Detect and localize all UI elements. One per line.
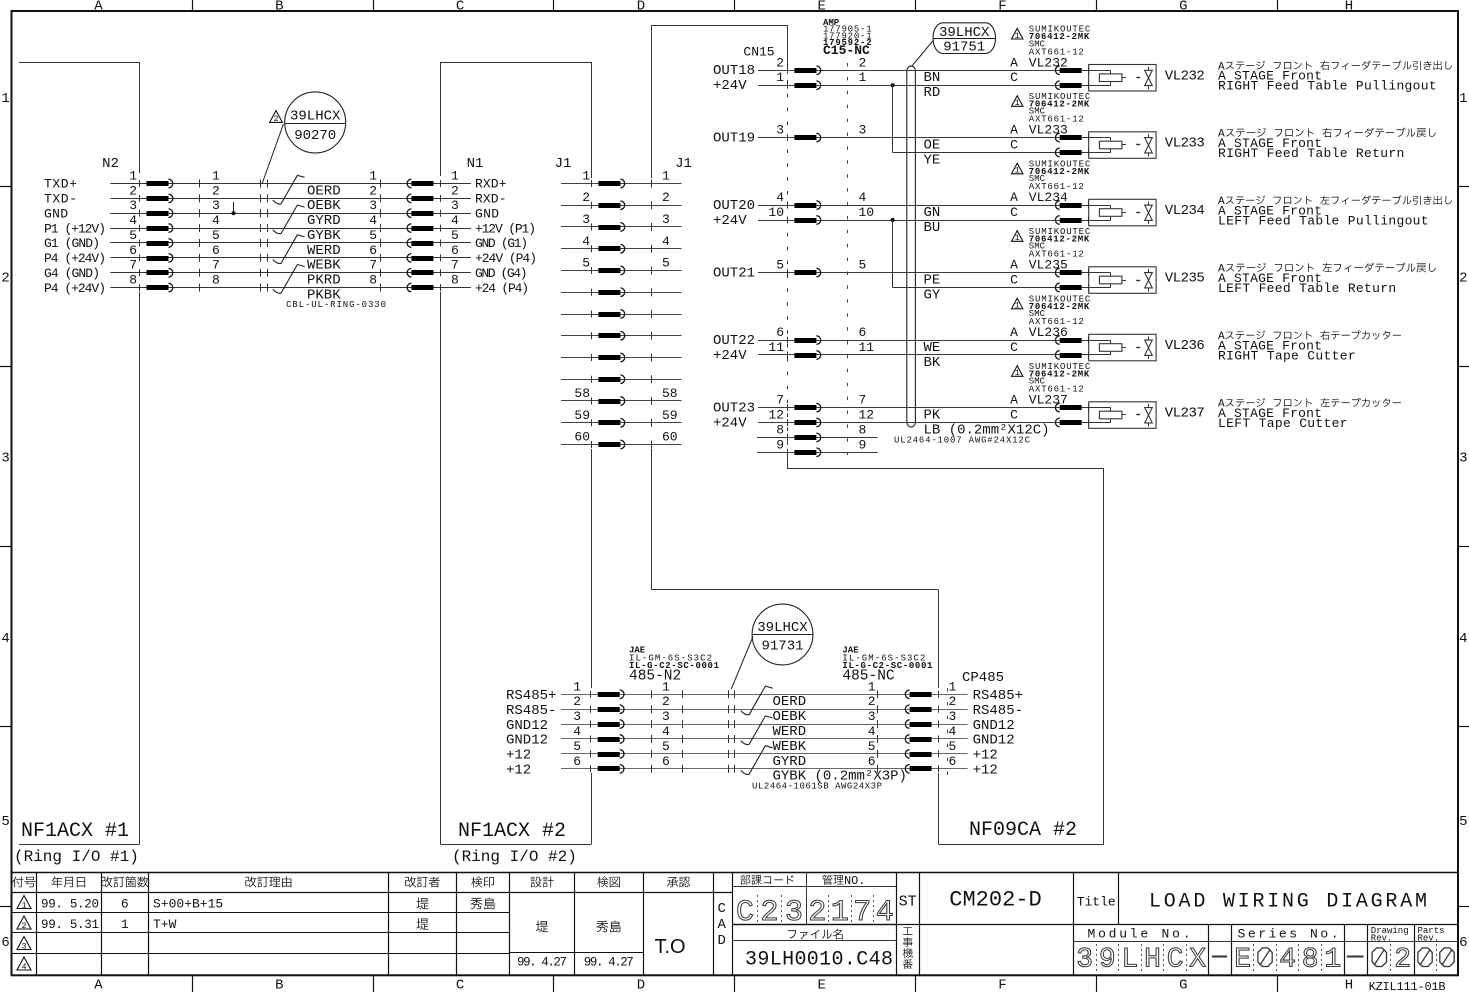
svg-text:A: A [1010, 190, 1018, 205]
wire RS485 pin 2 RS485- [561, 709, 968, 711]
svg-text:C: C [1010, 273, 1018, 288]
svg-text:OUT21: OUT21 [713, 265, 755, 281]
svg-text:A: A [1010, 325, 1018, 340]
svg-text:7: 7 [859, 393, 867, 408]
svg-text:6: 6 [868, 754, 876, 769]
svg-text:1: 1 [582, 169, 590, 184]
svg-text:NF1ACX #1: NF1ACX #1 [21, 820, 129, 843]
svg-text:OEBK: OEBK [773, 709, 807, 725]
svg-text:3: 3 [662, 709, 670, 724]
svg-text:485-N2: 485-N2 [629, 669, 681, 685]
revision triangle 1 marker VL236 [1012, 298, 1023, 309]
svg-text:3: 3 [369, 198, 377, 213]
svg-text:5: 5 [212, 228, 220, 243]
svg-text:C: C [1010, 70, 1018, 85]
svg-text:8: 8 [369, 273, 377, 288]
svg-text:RXD+: RXD+ [475, 177, 507, 192]
svg-text:6: 6 [129, 243, 137, 258]
svg-text:3: 3 [1459, 451, 1467, 467]
svg-text:1: 1 [1015, 368, 1020, 378]
svg-text:4: 4 [662, 234, 670, 249]
svg-text:(Ring I/O #2): (Ring I/O #2) [452, 848, 577, 866]
svg-text:5: 5 [573, 739, 581, 754]
svg-text:10: 10 [859, 205, 875, 220]
svg-text:2: 2 [129, 183, 137, 198]
svg-text:A: A [94, 0, 103, 15]
svg-text:2: 2 [582, 190, 590, 205]
svg-text:3: 3 [573, 709, 581, 724]
svg-text:WERD: WERD [307, 243, 341, 259]
revision triangle 2 marker [270, 111, 283, 123]
svg-text:91751: 91751 [943, 39, 985, 55]
svg-text:60: 60 [574, 430, 590, 445]
svg-text:6: 6 [369, 243, 377, 258]
svg-text:6: 6 [573, 754, 581, 769]
wire N2 pin 3 GND to N1 [110, 213, 471, 215]
svg-text:2: 2 [21, 921, 26, 931]
svg-text:GND: GND [44, 206, 68, 221]
svg-text:P4 (+24V): P4 (+24V) [44, 251, 106, 266]
twisted-pair marks CBL cable [273, 175, 305, 204]
svg-text:12: 12 [859, 408, 875, 423]
svg-text:C: C [1010, 408, 1018, 423]
svg-text:F: F [998, 0, 1006, 15]
svg-text:8: 8 [859, 422, 867, 437]
svg-text:GY: GY [924, 287, 941, 303]
checker cell [596, 921, 608, 933]
svg-text:E: E [817, 978, 825, 992]
svg-text:10: 10 [768, 205, 784, 220]
koji-kiban vertical label [903, 927, 912, 935]
svg-text:(Ring I/O #1): (Ring I/O #1) [14, 848, 139, 866]
svg-text:6: 6 [212, 243, 220, 258]
parts rev 00 [1418, 948, 1432, 967]
svg-text:5: 5 [949, 739, 957, 754]
svg-text:7: 7 [451, 258, 459, 273]
svg-text:OUT23: OUT23 [713, 400, 755, 416]
wire J1 row 60 [561, 444, 682, 446]
solenoid valve VL234 [1089, 199, 1156, 226]
wire N2 pin 7 G4 (GND) to N1 [110, 272, 471, 274]
wire J1 row 1 [561, 183, 682, 185]
contact C VL235 [1088, 284, 1090, 291]
contact C VL237 [1088, 419, 1090, 426]
svg-text:39LHCX: 39LHCX [290, 108, 341, 124]
svg-text:OE: OE [924, 138, 941, 154]
svg-text:+12: +12 [973, 763, 998, 779]
svg-text:C: C [456, 0, 464, 15]
svg-text:5: 5 [868, 739, 876, 754]
contact C VL233 [1088, 149, 1090, 156]
svg-text:1: 1 [662, 679, 670, 694]
svg-text:NF09CA #2: NF09CA #2 [969, 819, 1077, 842]
svg-text:YE: YE [924, 152, 941, 168]
svg-text:7: 7 [776, 393, 784, 408]
svg-text:RXD-: RXD- [475, 192, 507, 207]
module box NF1ACX #2 outline [440, 62, 591, 64]
svg-text:1: 1 [859, 70, 867, 85]
solenoid valve VL233 [1089, 132, 1156, 159]
drawing rev 02 [1372, 948, 1386, 967]
svg-text:6: 6 [662, 754, 670, 769]
svg-text:CM202-D: CM202-D [949, 888, 1041, 913]
svg-text:J1: J1 [555, 156, 572, 172]
svg-text:1: 1 [573, 679, 581, 694]
svg-text:4: 4 [582, 234, 590, 249]
contact A VL235 [1088, 269, 1090, 276]
svg-text:C: C [1010, 205, 1018, 220]
svg-text:3: 3 [859, 123, 867, 138]
svg-text:8: 8 [129, 273, 137, 288]
svg-text:GND12: GND12 [973, 733, 1015, 749]
module box NF1ACX #1 outline [19, 62, 140, 64]
wire J1 row 5 [561, 270, 682, 272]
svg-text:2: 2 [1459, 271, 1467, 287]
junction node on GND wire [233, 202, 235, 213]
svg-text:58: 58 [574, 386, 590, 401]
svg-text:5: 5 [776, 258, 784, 273]
solenoid valve VL235 [1089, 267, 1156, 294]
svg-text:Rev.: Rev. [1418, 934, 1440, 944]
leader line balloon 91751 [912, 40, 934, 67]
svg-text:4: 4 [949, 724, 957, 739]
svg-text:99. 5.31: 99. 5.31 [41, 918, 99, 932]
revision triangle 1 marker VL233 [1012, 96, 1023, 107]
svg-text:3: 3 [212, 198, 220, 213]
svg-text:H: H [1144, 945, 1161, 976]
svg-text:1: 1 [868, 679, 876, 694]
svg-text:1: 1 [1015, 233, 1020, 243]
svg-text:6: 6 [859, 325, 867, 340]
module-series band grid [733, 924, 1458, 926]
svg-text:CN15: CN15 [743, 44, 774, 59]
svg-text:2: 2 [859, 55, 867, 70]
svg-text:L: L [1121, 945, 1138, 976]
svg-text:A: A [718, 917, 727, 933]
solenoid valve VL237 [1089, 402, 1156, 429]
svg-text:99. 4.27: 99. 4.27 [517, 956, 567, 970]
wire CN15 pin 8 [757, 437, 878, 439]
svg-text:4: 4 [662, 724, 670, 739]
svg-text:4: 4 [573, 724, 581, 739]
svg-text:LEFT Tape Cutter: LEFT Tape Cutter [1218, 416, 1348, 431]
svg-text:H: H [1345, 0, 1353, 15]
revision table headers [12, 876, 23, 887]
svg-text:8: 8 [1302, 945, 1319, 976]
wire N2 pin 2 TXD- to N1 [110, 198, 471, 200]
revision triangle 1 marker VL235 [1012, 231, 1023, 242]
revision triangle row markers [17, 896, 31, 909]
svg-text:OUT18: OUT18 [713, 63, 755, 79]
svg-text:2: 2 [369, 183, 377, 198]
svg-text:GND (G1): GND (G1) [475, 236, 528, 251]
svg-text:+12: +12 [506, 763, 531, 779]
svg-text:6: 6 [121, 897, 129, 912]
svg-text:6: 6 [1459, 935, 1467, 951]
svg-text:D: D [637, 978, 645, 992]
svg-text:2: 2 [662, 190, 670, 205]
svg-text:9: 9 [859, 437, 867, 452]
svg-text:1: 1 [129, 169, 137, 184]
svg-text:TXD+: TXD+ [44, 177, 77, 192]
wire N2 pin 5 G1 (GND) to N1 [110, 242, 471, 244]
svg-text:C: C [1010, 340, 1018, 355]
svg-text:WEBK: WEBK [773, 739, 807, 755]
title block revision table grid [12, 872, 1459, 874]
wire J1 row 59 [561, 422, 682, 424]
svg-text:2: 2 [573, 694, 581, 709]
wire CN15 pin 12 [757, 422, 1089, 424]
svg-text:2: 2 [212, 183, 220, 198]
leader line balloon 90270 [262, 124, 284, 184]
cable sheath capsule CN15 [907, 66, 916, 427]
contact C VL234 [1088, 217, 1090, 224]
svg-text:9: 9 [1099, 945, 1116, 976]
svg-text:59: 59 [662, 408, 678, 423]
svg-text:11: 11 [859, 340, 875, 355]
solenoid valve VL232 [1089, 65, 1156, 92]
svg-text:6: 6 [1, 935, 9, 951]
svg-text:RIGHT Tape Cutter: RIGHT Tape Cutter [1218, 348, 1356, 363]
svg-text:4: 4 [129, 213, 137, 228]
svg-text:N1: N1 [467, 156, 484, 172]
svg-text:A: A [1010, 123, 1018, 138]
svg-text:2: 2 [868, 694, 876, 709]
svg-text:VL236: VL236 [1029, 325, 1068, 340]
svg-text:X: X [1189, 945, 1206, 976]
wire J1 row nc [561, 292, 682, 294]
svg-text:VL234: VL234 [1165, 203, 1205, 219]
svg-text:GND: GND [475, 206, 499, 221]
svg-text:VL237: VL237 [1165, 406, 1205, 422]
wire CN15 pin 6 [757, 340, 1089, 342]
svg-text:VL233: VL233 [1165, 136, 1205, 152]
svg-text:3: 3 [868, 709, 876, 724]
wire J1 row nc [561, 335, 682, 337]
svg-text:1: 1 [1, 91, 9, 107]
svg-text:1: 1 [21, 900, 26, 910]
svg-text:RS485-: RS485- [973, 703, 1023, 719]
contact C VL232 [1088, 82, 1090, 89]
svg-text:GND (G4): GND (G4) [475, 266, 528, 281]
svg-text:+12: +12 [506, 748, 531, 764]
svg-text:G4 (GND): G4 (GND) [44, 266, 100, 281]
svg-text:3: 3 [1076, 945, 1093, 976]
svg-text:8: 8 [212, 273, 220, 288]
junction +24V drop to VL235 C [891, 218, 895, 222]
svg-text:UL2464-1061SB AWG24X3P: UL2464-1061SB AWG24X3P [752, 782, 882, 792]
svg-text:A: A [1010, 393, 1018, 408]
svg-text:Title: Title [1077, 895, 1116, 910]
svg-text:99. 4.27: 99. 4.27 [584, 956, 634, 970]
svg-text:3: 3 [1, 451, 9, 467]
svg-text:58: 58 [662, 386, 678, 401]
svg-text:6: 6 [451, 243, 459, 258]
wire CN15 pin 11 [757, 354, 1089, 356]
svg-text:+24V (P4): +24V (P4) [475, 251, 537, 266]
svg-text:B: B [275, 978, 283, 992]
svg-text:8: 8 [776, 422, 784, 437]
svg-text:PKRD: PKRD [307, 273, 341, 289]
twisted-pair marks RS485 cable [741, 686, 773, 715]
svg-text:GND12: GND12 [973, 718, 1015, 734]
svg-text:+24V: +24V [713, 78, 747, 94]
svg-text:1: 1 [1324, 945, 1341, 976]
designer cell [536, 921, 548, 933]
svg-text:T+W: T+W [153, 917, 177, 932]
svg-text:C: C [718, 901, 726, 917]
svg-text:4: 4 [1459, 631, 1467, 647]
svg-text:7: 7 [212, 258, 220, 273]
svg-text:1: 1 [451, 169, 459, 184]
svg-text:4: 4 [859, 190, 867, 205]
svg-text:WERD: WERD [773, 724, 807, 740]
wire RS485 pin 1 RS485+ [561, 694, 968, 696]
balloon 39LHCX 90270 [285, 92, 346, 153]
contact A VL232 [1088, 67, 1090, 74]
svg-text:4: 4 [369, 213, 377, 228]
svg-text:1: 1 [121, 917, 129, 932]
svg-text:2: 2 [949, 694, 957, 709]
wire CN15 pin 10 [757, 220, 1089, 222]
svg-text:BK: BK [924, 355, 941, 371]
dash 1 [1212, 956, 1227, 958]
wire CN15 pin 4 [757, 205, 1089, 207]
svg-text:WE: WE [924, 340, 941, 356]
svg-text:1: 1 [776, 70, 784, 85]
svg-text:7: 7 [129, 258, 137, 273]
svg-text:CP485: CP485 [962, 670, 1004, 686]
contact A VL237 [1088, 404, 1090, 411]
contact C VL236 [1088, 352, 1090, 359]
svg-text:C: C [1167, 945, 1184, 976]
svg-text:C: C [1010, 138, 1018, 153]
svg-text:12: 12 [768, 408, 784, 423]
svg-text:GN: GN [924, 205, 941, 221]
svg-text:WEBK: WEBK [307, 258, 341, 274]
svg-text:4: 4 [212, 213, 220, 228]
svg-text:1: 1 [1015, 301, 1020, 311]
svg-text:91731: 91731 [761, 639, 803, 655]
svg-text:GYBK: GYBK [307, 228, 341, 244]
svg-text:60: 60 [662, 430, 678, 445]
svg-text:F: F [998, 978, 1006, 992]
svg-text:1: 1 [1015, 98, 1020, 108]
svg-text:1: 1 [949, 679, 957, 694]
revision triangle 1 marker VL237 [1012, 366, 1023, 377]
svg-text:LEFT Feed Table Pullingout: LEFT Feed Table Pullingout [1218, 213, 1429, 228]
wire RS485 pin 6 +12 [561, 768, 968, 770]
svg-text:GND12: GND12 [506, 718, 548, 734]
title cell [1073, 872, 1075, 924]
svg-text:LEFT Feed Table Return: LEFT Feed Table Return [1218, 281, 1396, 296]
svg-text:VL234: VL234 [1029, 190, 1068, 205]
revision triangle 1 marker VL232 [1012, 28, 1023, 39]
svg-text:RS485-: RS485- [506, 703, 556, 719]
wire N2 pin 1 TXD+ to N1 [110, 183, 471, 185]
wire CN15 pin 3 [757, 137, 1089, 139]
wire CN15 pin 5 [757, 272, 1089, 274]
svg-text:P4 (+24V): P4 (+24V) [44, 281, 106, 296]
svg-text:4: 4 [21, 962, 26, 972]
dash 2 [1347, 956, 1364, 958]
wire N2 pin 6 P4 (+24V) to N1 [110, 257, 471, 259]
svg-text:CBL-UL-RING-0330: CBL-UL-RING-0330 [286, 300, 386, 310]
svg-text:2: 2 [451, 183, 459, 198]
svg-text:BU: BU [924, 220, 941, 236]
svg-text:5: 5 [369, 228, 377, 243]
svg-text:Rev.: Rev. [1371, 934, 1393, 944]
svg-text:1: 1 [369, 169, 377, 184]
svg-text:E: E [817, 0, 825, 15]
svg-text:2: 2 [662, 694, 670, 709]
contact A VL234 [1088, 202, 1090, 209]
dept code header [740, 875, 750, 885]
svg-text:7: 7 [369, 258, 377, 273]
svg-text:D: D [637, 0, 645, 15]
svg-text:VL232: VL232 [1165, 68, 1205, 84]
svg-text:J1: J1 [675, 156, 692, 172]
svg-text:+12V (P1): +12V (P1) [475, 221, 536, 236]
svg-text:5: 5 [859, 258, 867, 273]
svg-text:5: 5 [1, 814, 9, 830]
svg-text:OUT19: OUT19 [713, 130, 755, 146]
svg-text:4: 4 [1279, 945, 1296, 976]
svg-text:ST: ST [899, 894, 917, 911]
svg-text:59: 59 [574, 408, 590, 423]
svg-text:VL235: VL235 [1165, 271, 1205, 287]
svg-text:39LH0010.C48: 39LH0010.C48 [745, 949, 893, 972]
wire J1 row nc [561, 379, 682, 381]
svg-text:5: 5 [582, 256, 590, 271]
svg-text:39LHCX: 39LHCX [757, 620, 808, 636]
svg-text:1: 1 [1459, 91, 1467, 107]
svg-text:S+00+B+15: S+00+B+15 [153, 897, 223, 912]
svg-text:G: G [1179, 0, 1187, 15]
balloon 39LHCX 91731 [752, 604, 813, 665]
svg-text:5: 5 [1459, 814, 1467, 830]
wire CN15 pin 9 [757, 452, 878, 454]
svg-text:T.O: T.O [654, 936, 685, 958]
svg-text:3: 3 [582, 212, 590, 227]
svg-text:PE: PE [924, 273, 941, 289]
wire J1 row nc [561, 314, 682, 316]
module box NF09CA #2 outline [651, 25, 787, 27]
svg-text:A: A [94, 978, 103, 992]
svg-text:H: H [1345, 978, 1353, 992]
svg-text:RS485+: RS485+ [973, 688, 1023, 704]
dashed column CN15 right [847, 63, 849, 455]
svg-text:+24V: +24V [713, 348, 747, 364]
svg-text:8: 8 [451, 273, 459, 288]
svg-text:11: 11 [768, 340, 784, 355]
svg-text:5: 5 [662, 256, 670, 271]
svg-text:NF1ACX #2: NF1ACX #2 [458, 820, 566, 843]
svg-text:KZIL111-01B: KZIL111-01B [1369, 980, 1446, 992]
dashed column CP485 [947, 688, 949, 776]
svg-text:5: 5 [451, 228, 459, 243]
svg-text:E: E [1234, 945, 1251, 976]
svg-text:VL236: VL236 [1165, 338, 1205, 354]
revision triangle 1 marker VL234 [1012, 163, 1023, 174]
svg-text:3: 3 [662, 212, 670, 227]
junction +24V drop to VL233 C [891, 83, 895, 87]
wire N2 pin 4 P1 (+12V) to N1 [110, 228, 471, 230]
svg-text:D: D [718, 933, 726, 949]
svg-text:BN: BN [924, 70, 941, 86]
svg-text:4: 4 [451, 213, 459, 228]
svg-text:+24V: +24V [713, 415, 747, 431]
